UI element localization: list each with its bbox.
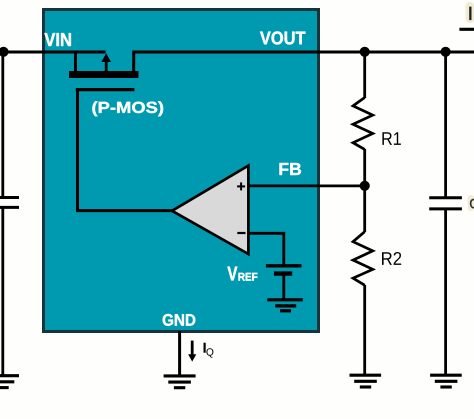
wire FB node to R2 bbox=[363, 186, 366, 232]
resistor R2 bbox=[353, 232, 373, 286]
op-amp plus pin bbox=[237, 182, 245, 190]
label GND bbox=[163, 314, 196, 326]
resistor R1 bbox=[353, 98, 373, 150]
ground GND2 (reference, inside block) bbox=[267, 300, 302, 311]
label VREF bbox=[227, 267, 257, 281]
wire VOUT to COUT bbox=[444, 52, 447, 198]
Q1 source leg bbox=[74, 52, 77, 72]
wire GND pin bbox=[178, 331, 181, 376]
label COUT (cut off at edge) bbox=[468, 195, 474, 211]
wire input branch down bbox=[1, 52, 4, 196]
Q1 gate bar bbox=[76, 88, 135, 91]
ground GND3 (device) bbox=[164, 376, 196, 388]
LDO regulator block U1 bbox=[44, 10, 319, 332]
label VOUT bbox=[260, 31, 305, 44]
label FB bbox=[280, 163, 302, 175]
label IOUT (cut off at top right) bbox=[466, 2, 474, 23]
wire R2 to ground bbox=[363, 285, 366, 375]
ground GND5 (output cap) bbox=[430, 375, 462, 387]
label (P-MOS) bbox=[92, 101, 163, 116]
wire VIN input bbox=[0, 51, 106, 54]
capacitor COUT bbox=[429, 198, 462, 209]
op-amp U2 error amplifier bbox=[172, 166, 248, 254]
wire VOUT to R1 bbox=[363, 52, 366, 98]
wire COUT to ground bbox=[444, 209, 447, 375]
wire gate to error amp output bbox=[78, 90, 173, 211]
Q1 channel bar bbox=[69, 71, 139, 78]
capacitor CIN bbox=[0, 198, 19, 208]
wire VOUT bbox=[132, 51, 474, 54]
Q1 drain leg bbox=[132, 52, 135, 72]
label VIN bbox=[44, 33, 71, 46]
node COUT junction dot bbox=[441, 47, 451, 57]
op-amp minus pin bbox=[237, 232, 245, 234]
node VOUT junction dot (divider) bbox=[360, 47, 370, 57]
arrow IOUT (cut off) bbox=[459, 28, 474, 31]
Q1 body arrow bbox=[105, 60, 108, 72]
label R2 bbox=[382, 252, 401, 265]
wire minus input to VREF bbox=[248, 233, 283, 264]
node FB junction dot bbox=[360, 181, 370, 191]
wire FB from plus input to divider bbox=[248, 184, 365, 187]
arrow IQ current bbox=[188, 341, 196, 362]
ground GND4 (divider) bbox=[350, 375, 382, 387]
node VIN junction dot bbox=[0, 47, 9, 57]
battery VREF reference bbox=[266, 266, 302, 299]
wire R1 to FB node bbox=[363, 149, 366, 186]
ground GND1 (input) bbox=[0, 376, 19, 388]
label IQ bbox=[204, 343, 214, 358]
label R1 bbox=[382, 132, 401, 145]
transistor Q1 P-MOS pass element bbox=[69, 52, 173, 211]
wire CIN to ground bbox=[1, 207, 4, 375]
